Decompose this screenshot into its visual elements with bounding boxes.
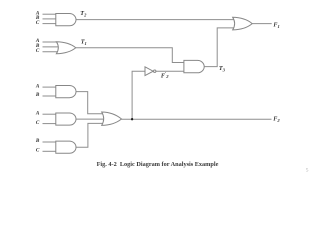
AND gate AB <box>56 86 76 98</box>
svg-text:F′2: F′2 <box>161 71 169 79</box>
wire F2 output line <box>121 118 271 120</box>
wire C input to gate BC <box>43 150 56 152</box>
svg-text:5: 5 <box>306 167 309 173</box>
svg-text:B: B <box>35 138 40 144</box>
svg-text:T1: T1 <box>81 39 87 47</box>
wire B input to gate T1 <box>43 46 59 48</box>
svg-text:A: A <box>35 110 40 116</box>
wire C input to gate T1 <box>43 51 59 53</box>
wire T1 output with jog down to AND gate T3 <box>76 48 184 63</box>
wire riser from junction up to inverter <box>132 71 145 119</box>
node junction on F2 line <box>131 118 133 120</box>
OR gate F2 <box>102 112 122 125</box>
OR gate F1 <box>233 17 253 30</box>
wire T3 output jog up to OR gate F1 <box>204 28 233 67</box>
svg-text:F2: F2 <box>273 116 280 124</box>
wire BC output jog up to OR gate F2 <box>76 123 105 147</box>
AND gate BC <box>56 141 76 153</box>
wire AB output jog down to OR gate F2 <box>76 92 105 114</box>
wire F1 output line <box>252 23 272 25</box>
wire inverter output to AND gate T3 <box>156 70 184 72</box>
svg-text:T2: T2 <box>80 10 87 18</box>
wire B input to gate AB <box>43 95 56 97</box>
OR gate T1 <box>56 42 75 54</box>
svg-text:C: C <box>36 48 40 54</box>
wire B input to gate T2 <box>43 18 56 20</box>
svg-text:B: B <box>35 92 40 98</box>
wire A input to gate AB <box>43 86 56 88</box>
wire C input to gate T2 <box>43 23 56 25</box>
wire A input to gate T1 <box>43 41 59 43</box>
svg-text:Fig. 4-2 Logic Diagram for An: Fig. 4-2 Logic Diagram for Analysis Exam… <box>97 161 219 168</box>
AND gate T2 <box>56 14 76 26</box>
wire A input to gate T2 <box>43 13 56 15</box>
wire T2 output to OR gate F1 <box>76 19 234 21</box>
wire AC output straight to OR gate F2 <box>76 118 105 120</box>
wire A input to gate AC <box>43 113 56 115</box>
svg-text:T3: T3 <box>219 65 226 73</box>
svg-text:F1: F1 <box>273 21 279 29</box>
AND gate T3 <box>184 60 204 72</box>
svg-text:C: C <box>36 120 40 126</box>
svg-text:C: C <box>36 148 40 154</box>
svg-text:A: A <box>35 83 40 89</box>
wire B input to gate BC <box>43 141 56 143</box>
inverter F'2 <box>145 67 153 76</box>
svg-text:C: C <box>36 20 40 26</box>
AND gate AC <box>56 113 76 125</box>
wire C input to gate AC <box>43 123 56 125</box>
